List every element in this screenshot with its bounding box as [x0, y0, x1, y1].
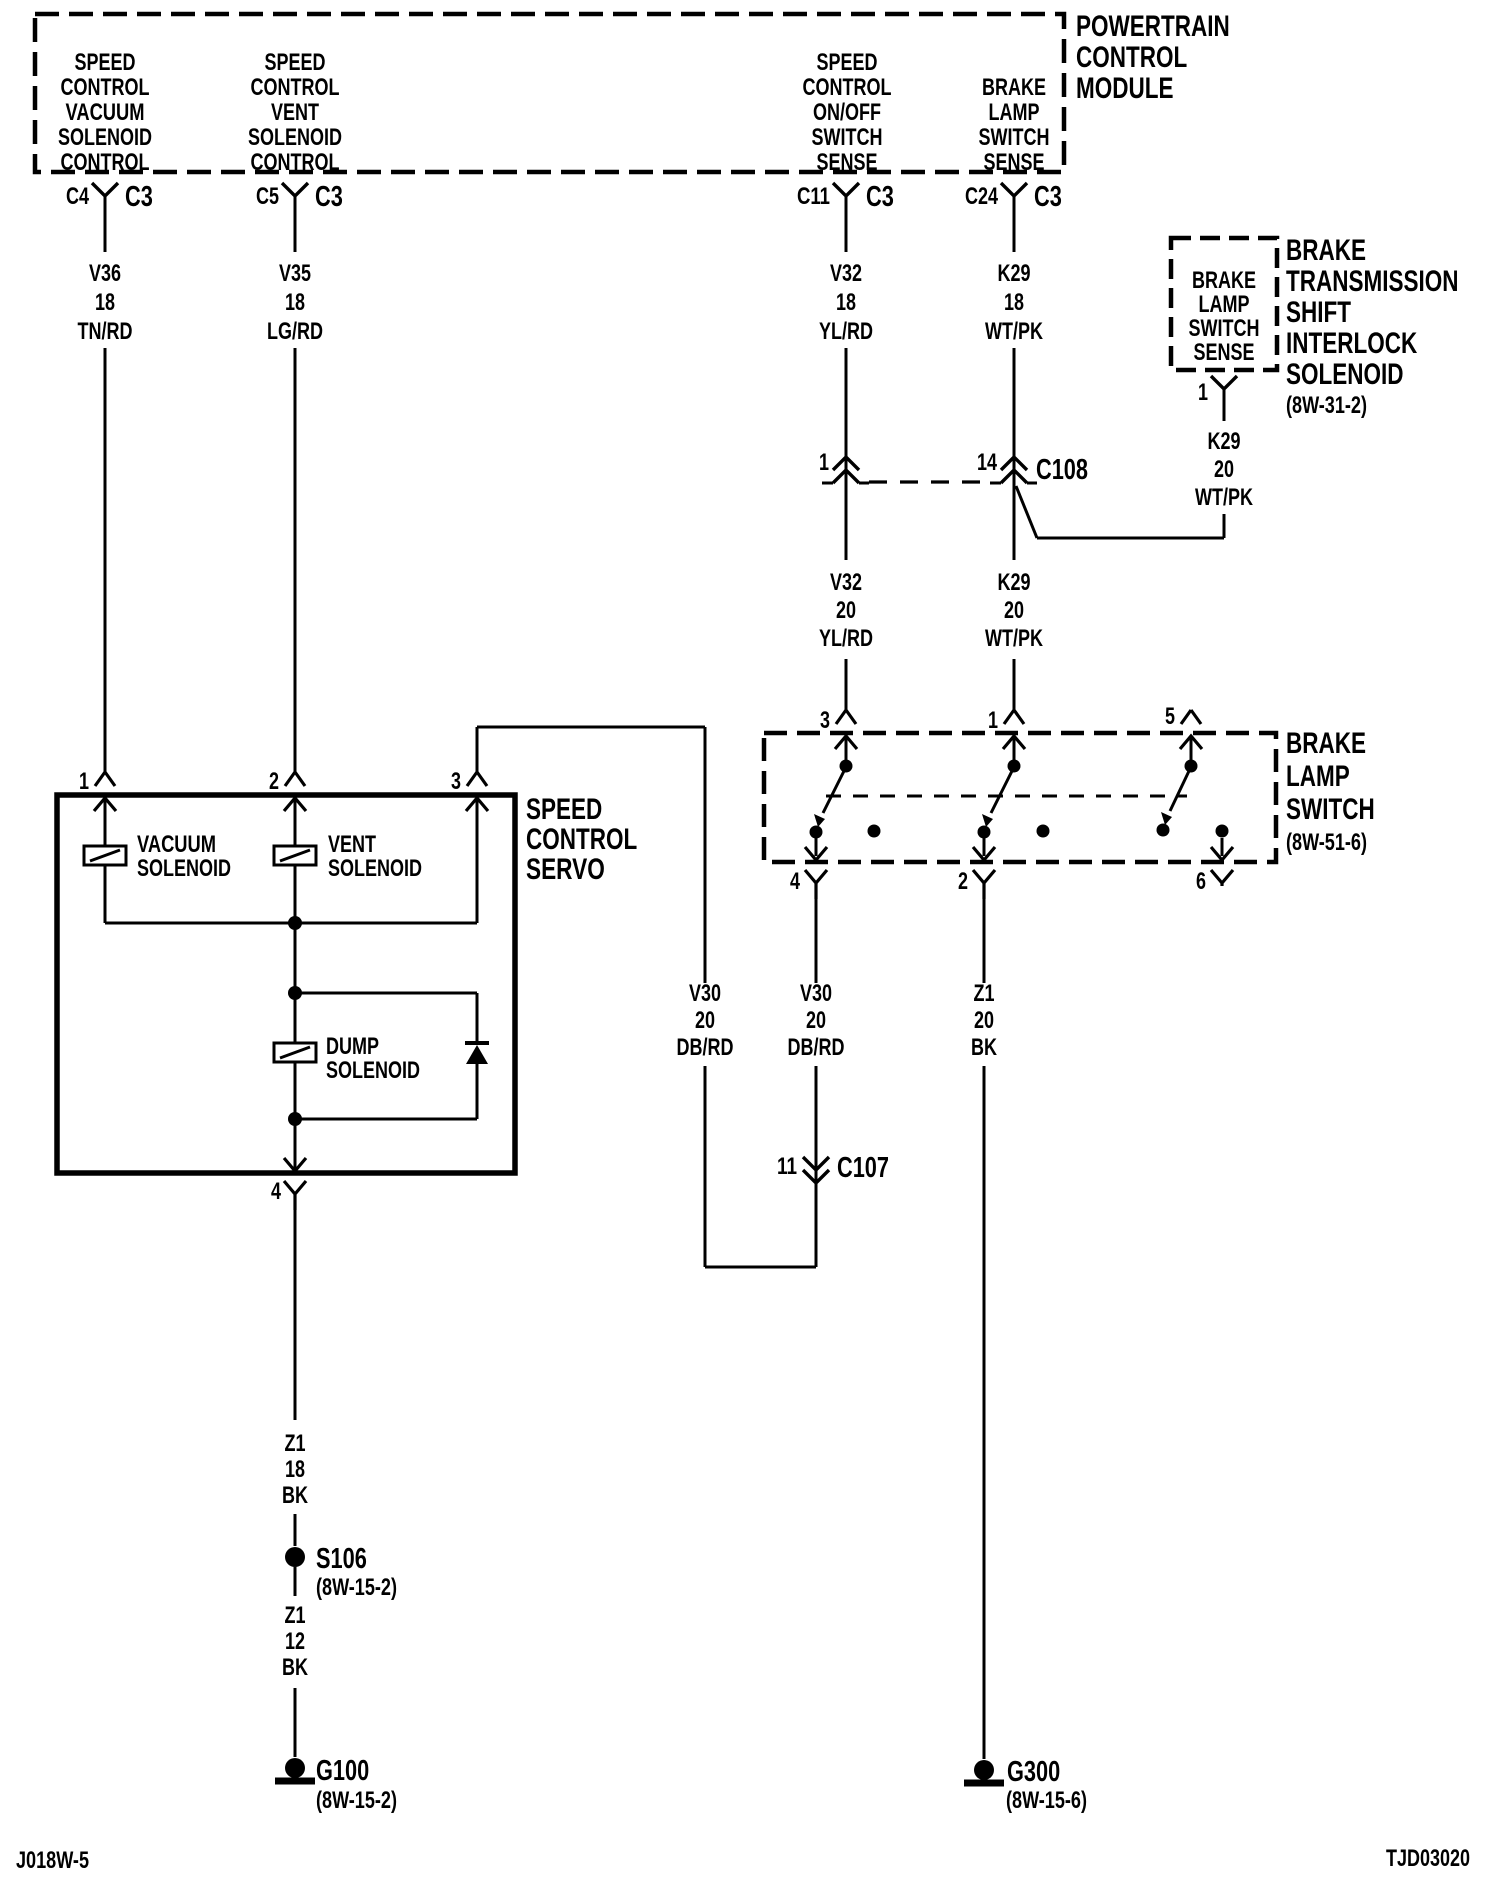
servo pin 2 [269, 768, 306, 811]
wire V32 20 YL/RD label [819, 484, 873, 711]
brake lamp switch pin 5 [1165, 703, 1202, 749]
svg-text:TJD03020: TJD03020 [1386, 1845, 1470, 1872]
svg-text:SHIFT: SHIFT [1286, 296, 1351, 329]
svg-text:V30: V30 [689, 980, 721, 1007]
connector C4 / C3 at PCM [66, 181, 153, 252]
svg-text:SOLENOID: SOLENOID [248, 124, 342, 151]
footer sheet number J018W-5 [16, 1847, 89, 1874]
svg-text:LAMP: LAMP [1286, 760, 1350, 793]
brake lamp switch pin 3 [820, 707, 857, 749]
brake lamp switch pin 4 [790, 847, 827, 899]
wire Z1 to G300 [983, 1066, 986, 1759]
switch 2 (pins 1-2) [978, 736, 1050, 856]
vent solenoid coil [274, 798, 422, 994]
svg-text:1: 1 [819, 449, 829, 476]
PCM title POWERTRAIN CONTROL MODULE [1076, 10, 1230, 105]
svg-text:DB/RD: DB/RD [677, 1034, 734, 1061]
junction node at bus [288, 916, 302, 930]
svg-text:C108: C108 [1036, 454, 1088, 486]
svg-text:CONTROL: CONTROL [526, 823, 637, 856]
svg-text:2: 2 [269, 768, 279, 795]
in-line connector C107 pin 11 [777, 1066, 889, 1267]
svg-text:18: 18 [95, 289, 115, 316]
PCM pin label: speed control vacuum solenoid control [58, 49, 152, 176]
svg-text:C3: C3 [315, 181, 343, 213]
svg-text:(8W-15-2): (8W-15-2) [316, 1787, 397, 1814]
svg-text:CONTROL: CONTROL [803, 74, 892, 101]
wire V30 from servo pin 3 over to x=705 [477, 727, 705, 983]
PCM pin label: brake lamp switch sense [979, 74, 1050, 176]
svg-text:K29: K29 [998, 260, 1031, 287]
servo pin 1 [79, 768, 116, 811]
svg-text:C107: C107 [837, 1152, 889, 1184]
BTSI brake transmission shift interlock solenoid dashed box [1171, 238, 1277, 370]
svg-text:SOLENOID: SOLENOID [328, 855, 422, 882]
wire V35 to servo pin 2 [294, 348, 297, 773]
svg-text:1: 1 [988, 707, 998, 734]
svg-text:(8W-15-2): (8W-15-2) [316, 1574, 397, 1601]
wire below S106 [294, 1567, 297, 1596]
dump branch wires [288, 993, 477, 1126]
svg-text:CONTROL: CONTROL [61, 149, 150, 176]
svg-text:BRAKE: BRAKE [1286, 727, 1366, 760]
svg-text:20: 20 [836, 597, 856, 624]
wire K29 to C108 pin 14 [1013, 348, 1016, 484]
svg-text:SPEED: SPEED [526, 793, 602, 826]
svg-text:K29: K29 [998, 569, 1031, 596]
svg-text:6: 6 [1196, 868, 1206, 895]
wire V30 lower left segment [705, 1066, 816, 1267]
svg-text:SPEED: SPEED [817, 49, 878, 76]
servo internal bus wire [105, 798, 477, 923]
svg-text:SOLENOID: SOLENOID [1286, 358, 1404, 391]
svg-text:VACUUM: VACUUM [137, 831, 216, 858]
vacuum solenoid coil [84, 798, 231, 923]
in-line connector C108 pin 1 [819, 449, 869, 483]
svg-text:BRAKE: BRAKE [982, 74, 1046, 101]
brake lamp switch pin 6 [1196, 847, 1233, 895]
svg-text:SENSE: SENSE [984, 149, 1045, 176]
svg-text:CONTROL: CONTROL [251, 149, 340, 176]
switch 3 (pins 5-6) [1157, 736, 1229, 856]
svg-text:SPEED: SPEED [75, 49, 136, 76]
svg-text:S106: S106 [316, 1543, 367, 1575]
svg-text:C5: C5 [256, 183, 279, 210]
connector C24 / C3 at PCM [965, 181, 1062, 252]
svg-text:C11: C11 [797, 183, 830, 210]
svg-text:SWITCH: SWITCH [979, 124, 1050, 151]
svg-text:TN/RD: TN/RD [78, 318, 133, 345]
wire V36 18 TN/RD label [78, 260, 133, 345]
svg-text:Z1: Z1 [285, 1602, 306, 1629]
svg-text:INTERLOCK: INTERLOCK [1286, 327, 1417, 360]
PCM powertrain control module dashed box [35, 14, 1064, 172]
svg-text:C24: C24 [965, 183, 998, 210]
svg-text:V35: V35 [279, 260, 311, 287]
svg-text:C3: C3 [125, 181, 153, 213]
wire Z1 from brake lamp switch pin 2 [983, 899, 986, 983]
wire Z1 20 BK label [971, 980, 997, 1061]
svg-text:CONTROL: CONTROL [61, 74, 150, 101]
svg-text:BRAKE: BRAKE [1286, 234, 1366, 267]
svg-text:V32: V32 [830, 569, 862, 596]
svg-text:5: 5 [1165, 703, 1175, 730]
BTSI title [1286, 234, 1459, 419]
BTSI pin label: brake lamp switch sense [1189, 267, 1260, 366]
svg-text:CONTROL: CONTROL [251, 74, 340, 101]
svg-text:3: 3 [820, 707, 830, 734]
svg-text:20: 20 [974, 1007, 994, 1034]
wire Z1 18 BK label [282, 1430, 308, 1509]
svg-text:Z1: Z1 [285, 1430, 306, 1457]
svg-text:18: 18 [1004, 289, 1024, 316]
wire V36 to servo pin 1 [104, 348, 107, 773]
svg-text:C4: C4 [66, 183, 89, 210]
speed control servo box [57, 795, 515, 1173]
svg-text:1: 1 [79, 768, 89, 795]
wire K29 20 WT/PK label (BTSI) [1195, 428, 1253, 511]
svg-text:WT/PK: WT/PK [1195, 484, 1253, 511]
svg-text:11: 11 [777, 1153, 797, 1180]
svg-text:VACUUM: VACUUM [66, 99, 145, 126]
PCM pin label: speed control on/off switch sense [803, 49, 892, 176]
svg-text:SWITCH: SWITCH [1189, 315, 1260, 342]
svg-text:BK: BK [282, 1482, 308, 1509]
brake lamp switch pin 2 [958, 847, 995, 899]
brake lamp switch pin 1 [988, 707, 1025, 749]
wire V30 20 DB/RD label (right) [788, 980, 845, 1061]
wire V30 from brake lamp switch pin 4 [815, 899, 818, 983]
svg-text:C3: C3 [1034, 181, 1062, 213]
svg-text:TRANSMISSION: TRANSMISSION [1286, 265, 1459, 298]
wire V30 20 DB/RD label (left) [677, 980, 734, 1061]
splice S106 [285, 1543, 397, 1601]
connector C11 / C3 at PCM [797, 181, 894, 252]
svg-text:14: 14 [977, 449, 997, 476]
svg-text:4: 4 [271, 1178, 281, 1205]
svg-text:G100: G100 [316, 1755, 369, 1787]
svg-text:20: 20 [695, 1007, 715, 1034]
wire K29 20 WT/PK label [985, 484, 1043, 711]
svg-text:20: 20 [806, 1007, 826, 1034]
svg-text:Z1: Z1 [974, 980, 995, 1007]
svg-text:C3: C3 [866, 181, 894, 213]
svg-text:V30: V30 [800, 980, 832, 1007]
svg-text:LG/RD: LG/RD [267, 318, 323, 345]
svg-text:18: 18 [285, 289, 305, 316]
svg-text:BRAKE: BRAKE [1192, 267, 1256, 294]
svg-text:BK: BK [971, 1034, 997, 1061]
svg-text:LAMP: LAMP [989, 99, 1040, 126]
C108 dashed connector line [869, 480, 991, 483]
connector C5 / C3 at PCM [256, 181, 343, 252]
PCM pin label: speed control vent solenoid control [248, 49, 342, 176]
dump solenoid coil [274, 986, 420, 1170]
wire Z1 12 BK label [282, 1602, 308, 1681]
svg-text:VENT: VENT [328, 831, 376, 858]
switch linkage dashed line [826, 795, 1187, 798]
ground G300 [964, 1756, 1087, 1814]
svg-text:(8W-15-6): (8W-15-6) [1006, 1787, 1087, 1814]
svg-text:20: 20 [1214, 456, 1234, 483]
svg-text:BK: BK [282, 1654, 308, 1681]
brake lamp switch dashed box [764, 733, 1276, 862]
wire to G100 [294, 1688, 297, 1757]
svg-text:(8W-51-6): (8W-51-6) [1286, 829, 1367, 856]
wire Z1 from servo pin 4 [294, 1210, 297, 1420]
svg-text:SENSE: SENSE [1194, 339, 1255, 366]
svg-text:DUMP: DUMP [326, 1033, 379, 1060]
svg-text:4: 4 [790, 868, 800, 895]
svg-text:CONTROL: CONTROL [1076, 41, 1187, 74]
in-line connector C108 pin 14 [977, 449, 1088, 486]
ground G100 [275, 1755, 397, 1814]
svg-text:SOLENOID: SOLENOID [137, 855, 231, 882]
svg-text:SWITCH: SWITCH [1286, 793, 1375, 826]
svg-text:18: 18 [836, 289, 856, 316]
svg-text:YL/RD: YL/RD [819, 625, 873, 652]
svg-text:SOLENOID: SOLENOID [58, 124, 152, 151]
svg-text:20: 20 [1004, 597, 1024, 624]
wire BTSI K29 to C108 pin 14 [1016, 486, 1224, 538]
brake lamp switch title [1286, 727, 1375, 856]
svg-text:18: 18 [285, 1456, 305, 1483]
svg-text:WT/PK: WT/PK [985, 318, 1043, 345]
svg-text:SWITCH: SWITCH [812, 124, 883, 151]
svg-text:G300: G300 [1007, 1756, 1060, 1788]
speed control servo title [526, 793, 637, 886]
svg-text:2: 2 [958, 868, 968, 895]
svg-text:K29: K29 [1208, 428, 1241, 455]
servo pin 4 [271, 1158, 306, 1210]
svg-text:SOLENOID: SOLENOID [326, 1057, 420, 1084]
svg-text:V32: V32 [830, 260, 862, 287]
svg-text:V36: V36 [89, 260, 121, 287]
svg-text:VENT: VENT [271, 99, 319, 126]
diode D1 [465, 993, 489, 1119]
servo pin 3 [451, 768, 488, 811]
svg-text:J018W-5: J018W-5 [16, 1847, 89, 1874]
wire to splice S106 [294, 1514, 297, 1546]
svg-text:12: 12 [285, 1628, 305, 1655]
svg-text:ON/OFF: ON/OFF [813, 99, 881, 126]
wire V32 18 YL/RD label [819, 260, 873, 345]
svg-text:DB/RD: DB/RD [788, 1034, 845, 1061]
svg-text:YL/RD: YL/RD [819, 318, 873, 345]
svg-text:POWERTRAIN: POWERTRAIN [1076, 10, 1230, 43]
svg-text:1: 1 [1198, 379, 1208, 406]
wire K29 18 WT/PK label [985, 260, 1043, 345]
svg-text:(8W-31-2): (8W-31-2) [1286, 392, 1367, 419]
svg-text:SERVO: SERVO [526, 853, 605, 886]
wire V32 to C108 pin 1 [845, 348, 848, 484]
footer drawing number TJD03020 [1386, 1845, 1470, 1872]
svg-text:LAMP: LAMP [1199, 291, 1250, 318]
svg-text:SENSE: SENSE [817, 149, 878, 176]
svg-text:SPEED: SPEED [265, 49, 326, 76]
svg-text:MODULE: MODULE [1076, 72, 1174, 105]
svg-text:3: 3 [451, 768, 461, 795]
svg-text:WT/PK: WT/PK [985, 625, 1043, 652]
BTSI connector pin 1 [1198, 376, 1237, 421]
switch 1 (pins 3-4) [810, 736, 881, 856]
wire V35 18 LG/RD label [267, 260, 323, 345]
